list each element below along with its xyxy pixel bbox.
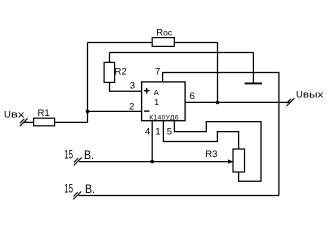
svg-text:R1: R1 <box>38 108 50 119</box>
svg-text:Rос: Rос <box>156 28 173 39</box>
svg-text:В.: В. <box>84 148 94 162</box>
svg-text:2: 2 <box>129 102 134 113</box>
svg-text:1: 1 <box>154 97 159 107</box>
svg-text:3: 3 <box>130 81 135 92</box>
svg-text:1: 1 <box>155 127 160 138</box>
svg-text:В.: В. <box>85 182 95 196</box>
svg-text:R2: R2 <box>115 67 127 78</box>
svg-text:7: 7 <box>155 67 160 78</box>
svg-text:Uвых: Uвых <box>296 90 324 101</box>
svg-text:К140УД6: К140УД6 <box>149 115 178 122</box>
svg-text:15: 15 <box>64 182 73 196</box>
svg-text:R3: R3 <box>205 149 217 160</box>
svg-text:5: 5 <box>167 127 172 138</box>
svg-text:15: 15 <box>64 148 73 162</box>
svg-text:Uвх: Uвх <box>4 110 25 121</box>
svg-text:А: А <box>154 88 159 97</box>
svg-text:4: 4 <box>145 127 151 138</box>
svg-text:6: 6 <box>190 91 195 102</box>
